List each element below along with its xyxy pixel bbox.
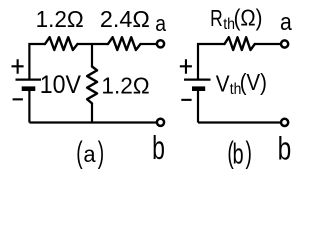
caption (b) bbox=[227, 137, 252, 171]
svg-text:1.2Ω: 1.2Ω bbox=[101, 72, 149, 98]
svg-text:R: R bbox=[210, 5, 223, 31]
label 10V bbox=[40, 71, 81, 99]
label 1.2ohm shunt bbox=[101, 72, 149, 98]
resistor 2.4ohm bbox=[108, 37, 141, 50]
svg-text:1.2Ω: 1.2Ω bbox=[36, 6, 84, 32]
svg-text:b: b bbox=[278, 131, 292, 167]
wire Rth to terminal a (b) bbox=[255, 43, 281, 45]
plus sign (a) bbox=[12, 59, 24, 73]
wire top-left (battery + to R 1.2ohm) bbox=[29, 44, 45, 79]
minus sign (b) bbox=[181, 99, 191, 101]
resistor 1.2ohm shunt bbox=[87, 67, 97, 104]
svg-text:b: b bbox=[152, 130, 165, 167]
wire bottom rail (a) bbox=[29, 121, 156, 123]
svg-text:2.4Ω: 2.4Ω bbox=[100, 6, 150, 32]
wire battery - to bottom rail bbox=[28, 91, 30, 123]
svg-text:V: V bbox=[216, 70, 230, 96]
label b (b) bbox=[278, 131, 292, 167]
svg-text:(V): (V) bbox=[240, 69, 267, 95]
label 1.2ohm series bbox=[36, 6, 84, 32]
caption (a) bbox=[76, 137, 104, 170]
svg-text:): ) bbox=[246, 137, 252, 170]
label a (a) bbox=[155, 11, 166, 36]
plus sign (b) bbox=[180, 59, 192, 73]
svg-text:): ) bbox=[98, 137, 104, 170]
node b terminal (b) bbox=[281, 119, 288, 126]
label Rth(ohm) bbox=[210, 4, 262, 33]
label Vth(V) bbox=[216, 69, 267, 98]
wire 2.4ohm to terminal a bbox=[141, 43, 157, 45]
wire battery - to bottom rail (b) bbox=[197, 91, 199, 123]
svg-text:b: b bbox=[233, 139, 244, 170]
svg-text:a: a bbox=[83, 141, 95, 167]
resistor 1.2ohm series bbox=[45, 37, 78, 50]
svg-text:a: a bbox=[155, 11, 166, 36]
svg-text:a: a bbox=[280, 9, 292, 36]
wire top-left (b) bbox=[198, 44, 225, 79]
node a terminal (b) bbox=[281, 40, 288, 47]
resistor Rth bbox=[225, 37, 255, 50]
wire middle branch bottom bbox=[91, 103, 93, 122]
voltage source 10V battery plates bbox=[16, 79, 42, 92]
label a (b) bbox=[280, 9, 292, 36]
svg-text:(: ( bbox=[76, 137, 82, 170]
wire bottom rail (b) bbox=[198, 121, 281, 123]
wire middle branch top bbox=[91, 44, 93, 67]
wire between series resistors bbox=[78, 43, 109, 45]
node b terminal (a) bbox=[157, 119, 164, 126]
voltage source Vth battery plates bbox=[184, 79, 211, 92]
label b (a) bbox=[152, 130, 165, 167]
svg-text:(Ω): (Ω) bbox=[234, 4, 263, 30]
label 2.4ohm bbox=[100, 6, 150, 32]
node a terminal (a) bbox=[157, 40, 164, 47]
minus sign (a) bbox=[13, 98, 23, 100]
svg-text:10V: 10V bbox=[40, 71, 81, 99]
